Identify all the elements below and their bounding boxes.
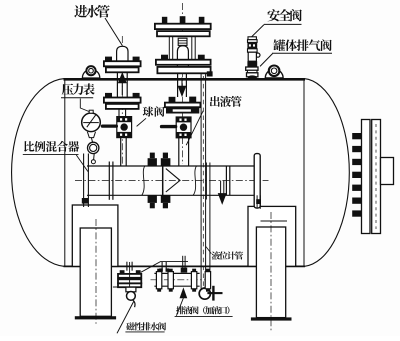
drain label leader (117, 302, 134, 334)
level gauge pipe (200, 74, 202, 289)
outlet ball valve (176, 117, 191, 138)
outlet pipe with down arrow (177, 73, 179, 97)
tank left head (12, 79, 65, 267)
right lifting lug (265, 69, 283, 78)
pressure gauge leader (80, 99, 89, 112)
tank left tangent line (64, 79, 66, 267)
inlet down pipe (120, 138, 122, 166)
left drain drip (133, 300, 135, 307)
left leg base plate (75, 316, 116, 319)
venturi flange bolts bottom (148, 195, 157, 203)
label: drain valve (fill port) 排液阀（加液口） (176, 306, 229, 314)
outlet label leader (186, 111, 203, 146)
gauge stand pipe / mixer left cap (83, 154, 85, 208)
left drain leader line (141, 262, 188, 273)
label: inlet pipe 进水管 (74, 5, 109, 18)
tank top line (64, 78, 306, 81)
inlet flange 2 bolts (105, 93, 112, 98)
outlet mid flange (156, 60, 211, 65)
right drain pipe (154, 272, 199, 274)
left drain nozzle (126, 262, 128, 271)
inlet flange 1 bolts (105, 57, 112, 62)
right leg centerline (270, 212, 272, 331)
outlet flange 3 (165, 103, 201, 108)
left drain valve block (126, 287, 136, 292)
outlet mid flange bolts (161, 55, 168, 60)
label: level gauge pipe 液位计管 (212, 251, 243, 259)
ball valve label leader (137, 118, 146, 126)
label: magnetic drain valve 磁性排水阀 (126, 322, 166, 330)
outlet top flange bolts (162, 17, 167, 24)
left drain ball (126, 292, 135, 301)
safety valve leader (252, 25, 264, 37)
inlet assembly centerline (121, 36, 123, 164)
inlet valve handle (101, 125, 118, 128)
pipe break wave right (193, 166, 196, 195)
inlet flange 1 (104, 61, 141, 66)
mixer level-tap flange (205, 163, 207, 200)
safety valve (248, 37, 256, 40)
vent valve leader (260, 54, 273, 67)
pressure gauge (82, 113, 101, 132)
outlet valve handle (160, 125, 177, 128)
mixer right end flange (254, 154, 260, 208)
down pipe to fill port (209, 163, 211, 272)
venturi flange bolts top (148, 158, 157, 166)
outlet tie rods (168, 36, 170, 59)
label: safety valve 安全阀 (267, 9, 301, 21)
gauge cock drain tick (93, 154, 96, 160)
mixer label leader (76, 155, 88, 172)
left leg centerline (95, 219, 97, 325)
gauge taper connector (87, 132, 95, 138)
inlet pipe dome top (117, 46, 128, 61)
label: tank vent valve 罐体排气阀 (274, 39, 332, 51)
tank bottom line (64, 265, 306, 267)
fill port label leader arrow (180, 289, 187, 298)
label: pressure gauge 压力表 (62, 83, 95, 95)
venturi cone (166, 169, 180, 192)
outlet assembly centerline (181, 3, 183, 164)
mixer pipe body (87, 165, 254, 167)
mixer flange joint A (108, 162, 110, 200)
venturi plate (162, 166, 164, 195)
vent valve body (247, 61, 257, 67)
drain stub with flow arrow (220, 181, 222, 194)
left drain bracket (113, 286, 118, 288)
manhole flange plate 1 (362, 120, 371, 234)
outlet threaded nub and dome pipe (177, 46, 188, 74)
outlet down pipe (178, 138, 180, 166)
mixer pipe centerline (75, 180, 269, 182)
label: ball valve 球阀 (143, 106, 165, 116)
inlet pipe with up arrow (116, 72, 118, 97)
level pipe ball end (199, 288, 210, 299)
outlet flange 3 bolts (169, 97, 176, 103)
pipe break wave left (142, 166, 145, 195)
left lifting lug (82, 69, 99, 78)
manhole knob (381, 158, 394, 185)
label: outlet pipe 出液管 (210, 96, 242, 107)
mixer flange joint B (225, 166, 227, 195)
tank right tangent line (303, 79, 305, 267)
left leg saddle box (72, 205, 118, 266)
inlet valve neck (118, 109, 120, 117)
inlet label leader (105, 18, 122, 46)
tank right head (304, 79, 349, 267)
inlet ball valve (117, 117, 132, 138)
gauge cock ring (88, 142, 99, 153)
left drain flange stack (118, 274, 141, 278)
manhole bolt teeth (352, 133, 361, 217)
label: proportional mixer 比例混合器 (24, 141, 79, 152)
right drain flange plates (156, 272, 161, 289)
right leg saddle box (248, 206, 296, 266)
inlet flange 2 (104, 98, 141, 103)
right leg column (256, 227, 285, 318)
left leg column (80, 228, 111, 316)
stub below end flange (256, 195, 258, 209)
manhole flange plate 2 (372, 120, 381, 234)
level pipe label leader (206, 247, 211, 254)
outlet top flange (155, 24, 211, 29)
right drain nozzle 1 (161, 262, 163, 272)
right drain nozzle 2 (182, 256, 184, 268)
fill port valve cross (212, 286, 214, 301)
right leg base plate (251, 317, 292, 320)
